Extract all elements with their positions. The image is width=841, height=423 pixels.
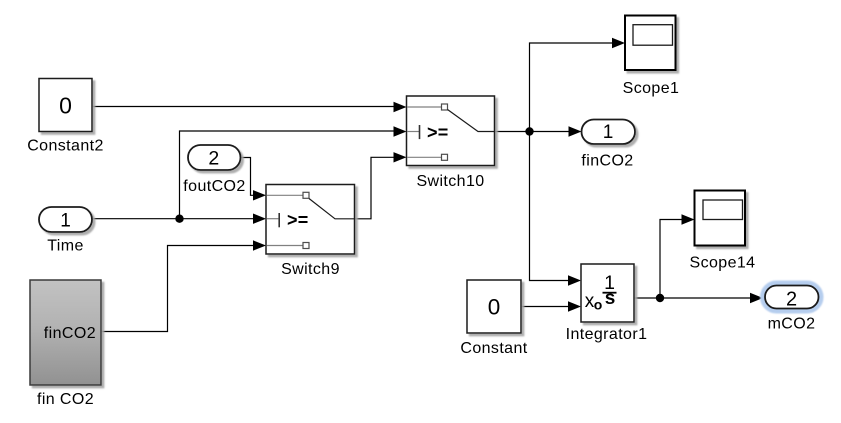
wire Time branch up to Switch10 in2 [180, 126, 407, 218]
svg-text:>=: >= [287, 210, 309, 230]
svg-text:Scope1: Scope1 [623, 80, 680, 97]
subsystem fin CO2 [30, 280, 101, 408]
svg-text:0: 0 [59, 93, 72, 119]
junction node Switch10 out [525, 127, 533, 135]
svg-text:1: 1 [603, 122, 614, 143]
wire junction right to finCO2 outport [530, 126, 582, 136]
outport finCO2 [581, 120, 635, 170]
block Integrator1 [566, 264, 648, 343]
wire foutCO2 to Switch9 in1 [241, 158, 267, 201]
svg-text:Integrator1: Integrator1 [566, 326, 648, 343]
svg-text:mCO2: mCO2 [768, 316, 816, 333]
svg-text:>=: >= [427, 123, 449, 143]
svg-text:Switch9: Switch9 [281, 261, 340, 278]
block Switch9 [266, 185, 355, 279]
svg-text:1: 1 [60, 211, 71, 232]
junction node Integrator1 out [656, 294, 664, 302]
junction node Time branch [175, 215, 183, 223]
block Constant value 0 [460, 280, 527, 357]
svg-text:s: s [605, 288, 616, 309]
svg-text:foutCO2: foutCO2 [183, 178, 245, 195]
svg-text:Constant: Constant [460, 340, 527, 357]
svg-text:2: 2 [208, 148, 219, 170]
scope Scope14 [690, 191, 756, 272]
outport mCO2 selected [763, 284, 821, 333]
scope Scope1 [623, 16, 680, 98]
svg-text:0: 0 [488, 295, 501, 320]
wire junction up to Scope1 [530, 38, 626, 132]
svg-text:Time: Time [47, 238, 84, 255]
outport foutCO2 [183, 145, 245, 195]
wire junction up to Scope14 [660, 214, 695, 298]
wire Switch10 out to junction [495, 131, 530, 133]
inport Time [39, 207, 92, 255]
wire junction down to Integrator1 in1 [530, 132, 582, 286]
wire Time to Switch9 in2 [92, 214, 266, 224]
svg-text:o: o [594, 297, 603, 313]
svg-text:2: 2 [786, 289, 797, 311]
wire Constant to Integrator1 in2 [521, 301, 581, 311]
block Constant2 value 0 [27, 79, 104, 155]
svg-text:Scope14: Scope14 [690, 255, 756, 272]
wire Switch9 out to Switch10 in3 [355, 152, 407, 219]
svg-text:finCO2: finCO2 [581, 152, 633, 169]
svg-text:finCO2: finCO2 [44, 325, 96, 342]
wire Integrator1 out to junction [634, 297, 660, 299]
block Switch10 [407, 96, 495, 190]
svg-text:fin CO2: fin CO2 [37, 391, 94, 408]
wire junction right to mCO2 outport [660, 293, 763, 303]
svg-text:Constant2: Constant2 [27, 137, 104, 154]
wire Constant2 to Switch10 in1 [92, 102, 407, 112]
wire fin CO2 to Switch9 in3 [101, 240, 266, 331]
svg-text:Switch10: Switch10 [416, 173, 484, 190]
